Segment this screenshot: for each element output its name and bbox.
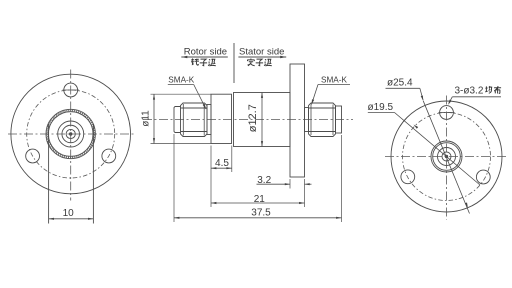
dia19.5 leader with arrow on bolt circle <box>395 113 481 186</box>
dia25.4 diameter chord with far arrow <box>423 101 469 214</box>
svg-text:SMA-K: SMA-K <box>321 75 347 84</box>
left view vertical centerline <box>70 70 72 201</box>
left view inner circle r4.6 <box>66 129 75 138</box>
body step (diam 11) <box>211 94 232 143</box>
right view center ring r4.5 <box>442 152 451 161</box>
left view top bolt hole <box>64 83 78 97</box>
stator SMA end ring <box>336 106 342 133</box>
left view outer flange circle <box>11 74 131 194</box>
dia11 extension line top <box>151 93 212 95</box>
svg-text:ø25.4: ø25.4 <box>387 78 413 89</box>
middle view horizontal centerline <box>143 119 353 121</box>
svg-text:Stator side: Stator side <box>239 47 284 58</box>
main body (diam 12.7) <box>234 93 291 147</box>
rotor SMA-K leader with arrow <box>194 85 206 110</box>
3-dia3.2 underline <box>452 96 501 98</box>
right view vertical centerline <box>446 96 448 220</box>
right view top bolt hole <box>440 106 454 120</box>
svg-text:3-ø3.2: 3-ø3.2 <box>455 85 484 96</box>
stator SMA-K underline <box>318 84 350 86</box>
right view center ring r9 <box>438 148 456 166</box>
left view square side right / extension line <box>92 124 94 224</box>
right view center ring r15.5 <box>431 141 462 172</box>
right view center ring r13.8 <box>433 143 461 171</box>
left view center pin dot <box>69 132 72 135</box>
dim 3.2 extension left <box>289 179 291 189</box>
stator SMA-K leader with arrow <box>312 85 319 105</box>
right view bolt circle (dash-dot) <box>403 113 491 201</box>
dia19.5 underline <box>368 112 395 114</box>
dia25.4 underline <box>386 87 420 89</box>
rotor SMA nut inner edge lines <box>182 104 184 136</box>
dim 37.5 extension left <box>173 134 175 222</box>
stator SMA nut inner edge lines <box>310 105 312 136</box>
dim 37.5 line <box>174 217 342 219</box>
left view lower-right bolt hole <box>102 149 116 163</box>
svg-text:3.2: 3.2 <box>257 175 271 186</box>
left view top hole center tick <box>63 89 80 91</box>
right view horizontal centerline <box>385 156 509 158</box>
stator SMA nut facet lines <box>309 107 336 109</box>
svg-text:ø11: ø11 <box>140 110 151 127</box>
rotor SMA hex nut <box>181 103 208 137</box>
dia12.7 dimension line <box>261 93 263 147</box>
left view bolt circle (dash-dot) <box>27 90 115 178</box>
dim 37.5 extension right <box>341 135 343 222</box>
right view lower-left bolt hole <box>401 170 415 184</box>
svg-text:37.5: 37.5 <box>251 208 271 219</box>
3-dia3.2 chinese 均布 <box>485 86 501 94</box>
rotor SMA-K underline <box>168 84 194 86</box>
dim 4.5 line <box>211 167 232 169</box>
dim 3.2 tails and arrows <box>257 183 291 185</box>
flange side view <box>290 64 305 177</box>
left view square side left / extension line <box>48 124 50 224</box>
right view lower-right bolt hole <box>476 170 490 184</box>
right view center pin dot <box>445 155 448 158</box>
3-dia3.2 leader with arrow to top hole <box>448 97 452 105</box>
left view inner circle r13 <box>58 121 84 147</box>
left view dimension 10 line <box>49 218 94 220</box>
right view top hole center tick <box>439 112 455 114</box>
svg-text:10: 10 <box>63 208 75 219</box>
left view knurl hatch texture <box>48 111 94 157</box>
dim 21 line <box>211 202 305 204</box>
rotor SMA nut facet lines <box>181 107 208 109</box>
dia25.4 leader elbow with arrow on circle <box>420 88 423 101</box>
rotor side chinese 转子边 <box>191 59 216 66</box>
dia11 extension line bottom <box>151 143 212 145</box>
dia11 dimension line <box>153 94 155 143</box>
stator side chinese 定子边 <box>247 59 272 66</box>
svg-text:ø12.7: ø12.7 <box>247 104 259 132</box>
stator SMA step <box>305 108 309 132</box>
svg-text:SMA-K: SMA-K <box>168 76 194 85</box>
right view outer flange circle <box>391 101 502 212</box>
svg-text:Rotor side: Rotor side <box>184 47 227 58</box>
svg-text:21: 21 <box>254 194 266 205</box>
left view inner circle r8.75 <box>62 125 80 143</box>
stator side divider line <box>233 43 235 83</box>
left view knurl ring outer circle <box>46 109 95 158</box>
rotor side underline with left arrow <box>181 56 228 59</box>
dim 4.5 extension left (shared with 21) <box>210 146 212 208</box>
dim 3.2 extension right (shared with 21) <box>304 179 306 207</box>
rotor SMA pilot step <box>174 107 181 133</box>
rotor SMA rear ring <box>207 105 211 135</box>
stator side underline with right arrow <box>238 56 286 59</box>
left view lower-left bolt hole <box>26 149 40 163</box>
dim 4.5 extension right <box>231 146 233 173</box>
left view horizontal centerline <box>8 133 134 135</box>
left view knurl ring inner circle <box>48 112 93 157</box>
stator SMA hex nut <box>309 103 336 137</box>
svg-text:4.5: 4.5 <box>215 158 229 169</box>
svg-text:ø19.5: ø19.5 <box>368 102 394 113</box>
